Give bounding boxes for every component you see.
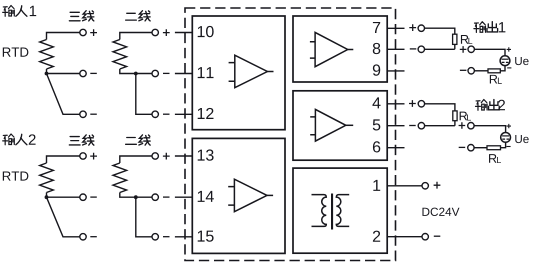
- resistor RL (output2 load, vertical): [453, 111, 457, 121]
- terminal - mid (input2 three-wire): [80, 194, 86, 200]
- minus sign mid (input1 two-wire): [163, 72, 170, 74]
- wire output2 + to load RL: [425, 104, 455, 111]
- minus sign bottom (input1 two-wire): [163, 113, 170, 115]
- label: output2 title 输出2: [476, 100, 505, 111]
- resistor RTD input1 three-wire: [40, 33, 80, 74]
- minus sign bottom (input1 three-wire): [90, 113, 97, 115]
- wire junction to mid terminal (input1 three-wire): [47, 73, 80, 75]
- terminal + output2 (pin4): [418, 101, 424, 107]
- wire junction to mid terminal (input2 three-wire): [47, 196, 80, 198]
- terminal - output1 (pin8): [418, 46, 424, 52]
- module outline (dashed enclosure): [185, 8, 396, 261]
- node junction (input1 three-wire): [45, 72, 49, 76]
- minus sign mid (input2 three-wire): [90, 196, 97, 198]
- wire junction to bottom terminal (input2 two-wire): [136, 197, 152, 237]
- terminal - bottom (input2 two-wire): [152, 234, 158, 240]
- label: RL (output1 ext loop): [490, 75, 497, 84]
- terminal - bottom (input1 two-wire): [152, 111, 158, 117]
- wire pin4 stub: [387, 103, 404, 105]
- wire pin2 to DC24V - terminal: [387, 236, 422, 238]
- wire pin10 lead-in: [175, 32, 192, 34]
- resistor RTD input2 three-wire: [40, 156, 80, 197]
- label: input2 title 输入2: [3, 134, 36, 145]
- terminal - bottom (input2 three-wire): [80, 234, 86, 240]
- terminal + output2 ext loop: [468, 123, 474, 129]
- resistor RL (output2 ext loop, horizontal): [487, 146, 501, 150]
- wire RL to output1 - row: [425, 44, 455, 49]
- terminal - mid (input1 three-wire): [80, 70, 86, 76]
- wire ext loop + to source Ue: [474, 49, 505, 56]
- input amplifier block U1 (pins 10-12): [192, 16, 285, 130]
- op-amp A3 (output1): [310, 32, 353, 66]
- wire pin12 lead-in: [175, 113, 192, 115]
- minus sign mid (input2 two-wire): [163, 196, 170, 198]
- resistor RTD input2 two-wire: [113, 156, 152, 197]
- pin 9: [373, 64, 380, 75]
- plus sign (input1 two-wire): [163, 29, 170, 36]
- plus sign (input1 three-wire): [90, 29, 97, 36]
- terminal - output2 ext loop: [468, 145, 474, 151]
- transformer T1 primary winding: [312, 195, 327, 227]
- label: DC24V: [422, 208, 459, 216]
- minus sign (output1 terminal 8): [410, 48, 417, 50]
- pin 10: [198, 26, 214, 37]
- wire output1 + to load RL: [425, 28, 455, 34]
- label: input1 title 输入1: [3, 6, 36, 17]
- terminal - output1 ext loop: [468, 68, 474, 74]
- resistor RL (output1 load, vertical): [453, 34, 457, 44]
- terminal - DC24V: [422, 234, 428, 240]
- minus sign (output2 ext loop -): [459, 146, 466, 148]
- wire ext loop - to RL (output2): [474, 147, 487, 149]
- terminal + DC24V: [422, 183, 428, 189]
- power supply block U5 (pins 1-2): [293, 168, 387, 253]
- pin 7: [373, 22, 380, 33]
- pin 11: [198, 67, 214, 78]
- pin 8: [373, 43, 381, 54]
- wire pin7 stub: [387, 27, 404, 29]
- pin 12: [198, 108, 214, 119]
- label: Ue (output2): [515, 135, 528, 143]
- wire pin8 stub: [387, 48, 404, 50]
- wire pin5 stub: [387, 125, 404, 127]
- wire Ue bottom to RL row (output2): [501, 142, 506, 147]
- wire pin6 stub: [387, 147, 404, 149]
- wire pin15 lead-in: [175, 236, 192, 238]
- pin 1: [373, 180, 380, 191]
- wire RL to output2 - row: [425, 121, 455, 126]
- wire ext loop + to source Ue (output2): [474, 126, 506, 133]
- minus sign small (Ue output1): [507, 67, 511, 69]
- plus sign (input2 three-wire): [90, 153, 97, 160]
- transformer T1 core: [331, 194, 333, 230]
- minus sign bottom (input2 three-wire): [90, 236, 97, 238]
- terminal + (input1 two-wire): [152, 29, 158, 35]
- wire pin14 lead-in: [175, 196, 192, 198]
- plus sign (output1 ext loop): [460, 46, 467, 53]
- pin 2: [373, 231, 380, 242]
- pin 15: [198, 231, 214, 242]
- minus sign small (Ue output2): [506, 146, 510, 148]
- label: two-wire 二线 (input2): [126, 135, 150, 145]
- pin 14: [198, 191, 214, 202]
- label: three-wire 三线 (input2): [69, 135, 93, 145]
- output amplifier block U4 (pins 4-6): [293, 91, 387, 160]
- wire pin11 lead-in: [175, 73, 192, 75]
- wire pin1 to DC24V + terminal: [387, 185, 422, 187]
- node junction (input2 two-wire): [134, 195, 138, 199]
- label: two-wire 二线 (input1): [126, 11, 150, 21]
- source Ue (output2 external supply): [501, 133, 511, 143]
- label: output1 title 输出1: [474, 22, 505, 33]
- terminal + (input1 three-wire): [80, 29, 86, 35]
- minus sign (output2 terminal 5): [409, 125, 416, 127]
- wire Ue bottom to RL row: [500, 66, 505, 71]
- minus sign mid (input1 three-wire): [90, 72, 97, 74]
- wire junction to bottom terminal (input1 two-wire): [136, 74, 152, 115]
- op-amp A1 (input1): [229, 55, 274, 87]
- resistor RTD input1 two-wire: [113, 33, 152, 74]
- terminal - bottom (input1 three-wire): [80, 111, 86, 117]
- plus sign (input2 two-wire): [163, 153, 170, 160]
- label: RTD (input2): [3, 171, 29, 180]
- label: RL (output1 load): [461, 35, 468, 44]
- pin 13: [198, 149, 214, 160]
- wire pin13 lead-in: [175, 155, 192, 157]
- wire junction diagonal to bottom terminal (input2 three-wire): [47, 197, 80, 237]
- input amplifier block U2 (pins 13-15): [192, 138, 285, 253]
- transformer T1 secondary winding: [336, 195, 349, 227]
- terminal + output1 ext loop: [468, 46, 474, 52]
- terminal + (input2 two-wire): [152, 153, 158, 159]
- pin 5: [373, 119, 381, 130]
- label: Ue (output1): [515, 57, 528, 65]
- node junction (input1 two-wire): [134, 72, 138, 76]
- label: three-wire 三线 (input1): [69, 11, 93, 21]
- plus sign (output1 terminal 7): [409, 24, 416, 31]
- minus sign (output1 ext loop -): [460, 69, 467, 71]
- node junction (input2 three-wire): [45, 195, 49, 199]
- wire ext loop - to RL: [474, 70, 488, 72]
- source Ue (output1 external supply): [500, 56, 510, 66]
- terminal - mid (input1 two-wire): [152, 70, 158, 76]
- terminal - mid (input2 two-wire): [152, 194, 158, 200]
- plus sign (DC24V): [434, 182, 441, 189]
- terminal + output1 (pin7): [418, 25, 424, 31]
- terminal - output2 (pin5): [418, 123, 424, 129]
- label: RL (output2 load): [460, 112, 467, 121]
- wire junction diagonal to bottom terminal (input1 three-wire): [47, 74, 80, 115]
- plus sign small (Ue output2): [507, 124, 511, 128]
- minus sign (DC24V): [434, 235, 441, 237]
- label: RL (output2 ext loop): [489, 154, 496, 163]
- output amplifier block U3 (pins 7-9): [293, 16, 387, 82]
- op-amp A2 (input2): [228, 179, 273, 212]
- pin 6: [373, 141, 380, 152]
- wire pin9 stub: [387, 70, 404, 72]
- terminal + (input2 three-wire): [80, 153, 86, 159]
- plus sign (output2 terminal 4): [409, 100, 416, 107]
- op-amp A4 (output2): [310, 109, 353, 141]
- minus sign bottom (input2 two-wire): [163, 236, 170, 238]
- resistor RL (output1 ext loop, horizontal): [488, 69, 500, 73]
- plus sign (output2 ext loop): [459, 122, 466, 129]
- pin 4: [372, 97, 380, 108]
- plus sign small (Ue output1): [507, 47, 511, 51]
- label: RTD (input1): [3, 48, 29, 57]
